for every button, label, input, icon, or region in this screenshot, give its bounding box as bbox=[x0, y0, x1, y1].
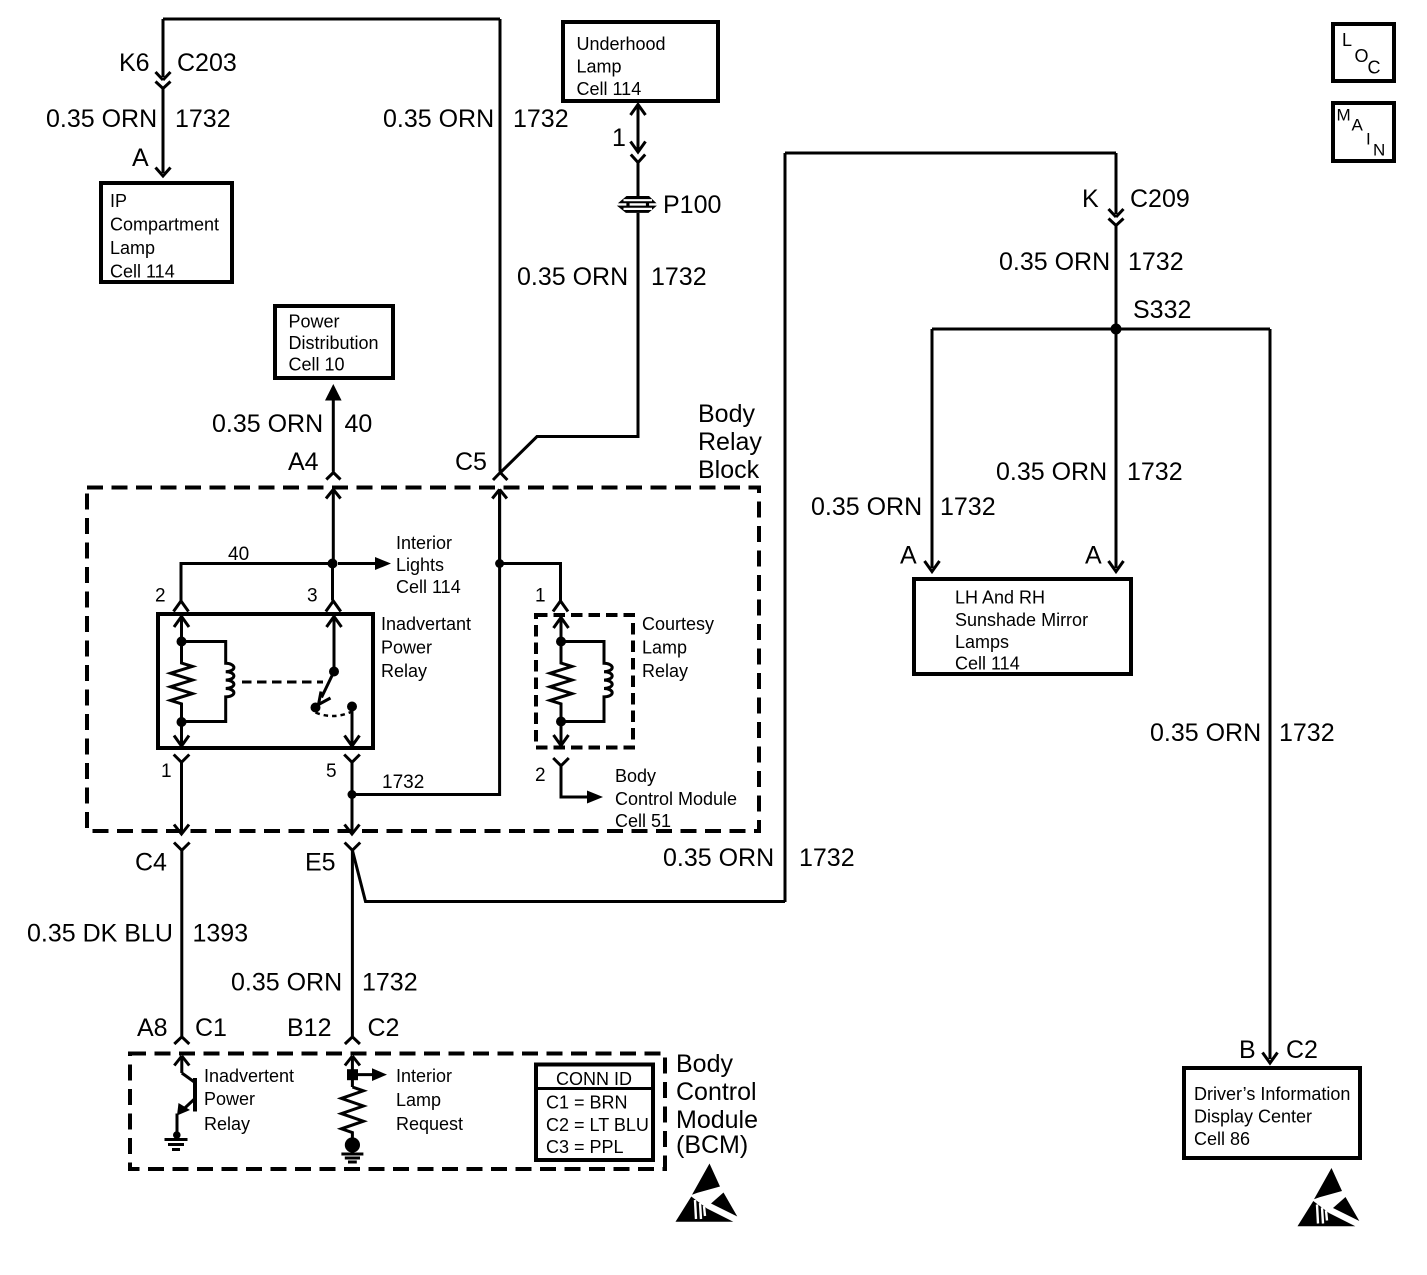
courtesy pin 1 chevron bbox=[553, 601, 568, 612]
relay pin 1 internal lead with arrow bbox=[174, 722, 189, 746]
svg-text:C1: C1 bbox=[195, 1014, 227, 1042]
svg-text:CONN ID: CONN ID bbox=[556, 1069, 632, 1089]
box: Inadvertant Power Relay bbox=[158, 614, 373, 748]
svg-text:C3 = PPL: C3 = PPL bbox=[546, 1137, 624, 1157]
label Interior Lamp Request bbox=[396, 1066, 463, 1134]
ESD sensitivity symbol (DIDC) bbox=[1298, 1168, 1360, 1226]
pin 1 chevron below relay bbox=[174, 755, 190, 763]
svg-text:IP: IP bbox=[110, 191, 127, 211]
svg-text:A: A bbox=[132, 144, 149, 172]
svg-text:Relay: Relay bbox=[204, 1114, 250, 1134]
svg-text:Lamp: Lamp bbox=[110, 238, 155, 258]
svg-text:Inadvertent: Inadvertent bbox=[204, 1066, 294, 1086]
box: Underhood Lamp Cell 114 bbox=[563, 22, 718, 101]
terminal C4 exit arrow at block edge bbox=[174, 825, 189, 835]
connector chevron at underhood lamp lead bbox=[631, 155, 645, 163]
svg-text:0.35 DK BLU: 0.35 DK BLU bbox=[27, 920, 173, 948]
svg-text:Compartment: Compartment bbox=[110, 215, 219, 235]
label Inadvertant Power Relay bbox=[381, 614, 471, 681]
arrowhead into sunshade box (left) bbox=[925, 561, 940, 572]
wire: middle branch down from S332 to terminal A bbox=[1115, 329, 1118, 568]
svg-text:Body: Body bbox=[698, 400, 755, 428]
wire: E5 down to BCM connector B12/C2 bbox=[351, 850, 354, 1036]
wire: courtesy pin 2 to BCM arrow bbox=[561, 766, 587, 797]
label Body Control Module (BCM) bbox=[676, 1050, 758, 1159]
arrow to Interior Lamp Request bbox=[352, 1068, 387, 1081]
ground symbol (interior lamp request) bbox=[341, 1154, 363, 1162]
node: ground tie dot bbox=[173, 1131, 181, 1139]
svg-text:A4: A4 bbox=[288, 448, 319, 476]
connector chevron at A8/C1 bbox=[174, 1037, 189, 1044]
svg-text:Cell 114: Cell 114 bbox=[577, 79, 642, 99]
label Inadvertent Power Relay (BCM) bbox=[204, 1066, 294, 1134]
svg-text:0.35 ORN: 0.35 ORN bbox=[517, 263, 628, 291]
label Courtesy Lamp Relay bbox=[642, 614, 714, 681]
courtesy coil resistance (zigzag) bbox=[550, 642, 572, 722]
svg-text:Display Center: Display Center bbox=[1194, 1107, 1312, 1127]
node: junction on pin 5 wire for 1732 feed bbox=[348, 790, 357, 799]
svg-text:Body: Body bbox=[676, 1050, 733, 1078]
svg-text:Interior: Interior bbox=[396, 533, 452, 553]
svg-text:Lamp: Lamp bbox=[396, 1090, 441, 1110]
switch blade with arrowhead bbox=[319, 672, 335, 705]
node: relay coil top bbox=[177, 637, 187, 647]
terminal E5 chevron (harness side) bbox=[345, 843, 361, 851]
svg-text:Distribution: Distribution bbox=[289, 333, 379, 353]
svg-text:0.35 ORN: 0.35 ORN bbox=[999, 248, 1110, 276]
pin 5 chevron below relay bbox=[344, 755, 360, 763]
wire: from C209 down to splice S332 bbox=[1115, 226, 1118, 330]
svg-text:Interior: Interior bbox=[396, 1066, 452, 1086]
svg-text:1: 1 bbox=[161, 761, 172, 782]
node: interior lamp request tap bbox=[347, 1069, 358, 1080]
svg-text:1732: 1732 bbox=[1279, 719, 1335, 747]
svg-text:Lamp: Lamp bbox=[577, 57, 622, 77]
node: courtesy coil top bbox=[556, 637, 566, 647]
svg-text:A: A bbox=[1352, 116, 1364, 135]
svg-text:P100: P100 bbox=[663, 191, 721, 219]
wire: pin 3 riser down to relay bbox=[331, 564, 334, 601]
label Body Relay Block bbox=[698, 400, 762, 484]
terminal C5 entry arrow inside block bbox=[492, 490, 507, 564]
courtesy coil (inductor) bbox=[561, 642, 612, 722]
svg-text:0.35 ORN: 0.35 ORN bbox=[1150, 719, 1261, 747]
terminal C4 chevron (harness side) bbox=[174, 843, 190, 851]
node: junction of pin 3 riser with 40 branch bbox=[328, 559, 338, 569]
wire: right branch from S332 down to Driver's Information Display Center bbox=[1269, 329, 1272, 1059]
relay pin 3 internal lead (switch common) bbox=[333, 614, 336, 672]
svg-text:2: 2 bbox=[535, 765, 546, 786]
svg-text:1: 1 bbox=[612, 124, 626, 152]
arrowhead into Driver's Information Display Center bbox=[1263, 1053, 1278, 1064]
node: junction on C5 riser bbox=[495, 559, 504, 568]
svg-text:Courtesy: Courtesy bbox=[642, 614, 714, 634]
wire: pin 1 down to block edge C4 bbox=[180, 762, 183, 831]
svg-text:Module: Module bbox=[676, 1106, 758, 1134]
relay coil resistance (zigzag) bbox=[171, 642, 193, 723]
node: relay coil bottom bbox=[177, 717, 187, 727]
svg-text:0.35 ORN: 0.35 ORN bbox=[46, 105, 157, 133]
LOC reference box bbox=[1333, 24, 1394, 81]
svg-text:Sunshade Mirror: Sunshade Mirror bbox=[955, 610, 1088, 630]
wire: S332 horizontal distribution bbox=[932, 328, 1270, 331]
wire: left branch down to LH sunshade lamp terminal A bbox=[931, 329, 934, 568]
svg-text:Power: Power bbox=[381, 638, 432, 658]
relay control dashed link bbox=[242, 681, 323, 684]
svg-text:40: 40 bbox=[345, 410, 373, 438]
svg-text:Control Module: Control Module bbox=[615, 789, 737, 809]
wire: C5 branch over to courtesy relay pin 1 bbox=[500, 564, 561, 601]
courtesy pin 2 chevron bbox=[553, 758, 569, 766]
svg-text:0.35 ORN: 0.35 ORN bbox=[383, 105, 494, 133]
svg-text:Request: Request bbox=[396, 1114, 463, 1134]
wire: circuit 40 horizontal to relay pin 2 bbox=[181, 564, 333, 601]
svg-text:3: 3 bbox=[307, 586, 318, 607]
box: IP Compartment Lamp Cell 114 bbox=[101, 183, 232, 282]
Body Control Module dashed outline bbox=[130, 1054, 665, 1170]
svg-text:Cell 114: Cell 114 bbox=[955, 654, 1020, 674]
svg-text:(BCM): (BCM) bbox=[676, 1131, 748, 1159]
relay pin 5 internal lead with arrow bbox=[345, 707, 360, 747]
svg-text:B12: B12 bbox=[287, 1014, 331, 1042]
ESD sensitivity symbol (BCM) bbox=[676, 1164, 738, 1222]
wire: vertical from top bus down to terminal C5 bbox=[499, 19, 502, 472]
svg-text:1732: 1732 bbox=[799, 844, 855, 872]
relay coil (inductor) bbox=[182, 642, 234, 722]
pin 2 chevron bbox=[174, 601, 189, 612]
B12 entry arrow inside BCM bbox=[345, 1056, 360, 1087]
arrowhead into IP Compartment Lamp box bbox=[156, 168, 171, 177]
svg-text:Lamp: Lamp bbox=[642, 638, 687, 658]
Body Relay Block dashed outline bbox=[87, 488, 759, 832]
wire: vertical drop to connector C203 bbox=[162, 19, 165, 77]
arrowhead (filled) into Power Distribution box bbox=[325, 384, 342, 401]
courtesy pin 2 internal lead with arrow bbox=[554, 722, 569, 746]
wire: emitter to ground bbox=[176, 1114, 179, 1136]
wire: horizontal run from E5 riser to C209 drop bbox=[785, 152, 1116, 155]
node: switch contact (normally open, left) bbox=[311, 703, 321, 713]
svg-text:5: 5 bbox=[326, 761, 337, 782]
svg-text:1732: 1732 bbox=[940, 493, 996, 521]
svg-text:C: C bbox=[1368, 58, 1381, 78]
node: switch pivot bbox=[329, 667, 339, 677]
MAIN reference box bbox=[1333, 103, 1394, 161]
arrow on pin 3 lead bbox=[327, 617, 342, 628]
svg-text:I: I bbox=[1366, 130, 1371, 149]
relay pin 2 internal lead with arrow bbox=[174, 616, 189, 641]
svg-text:Cell 114: Cell 114 bbox=[110, 262, 175, 282]
svg-text:0.35 ORN: 0.35 ORN bbox=[996, 458, 1107, 486]
svg-text:Cell 86: Cell 86 bbox=[1194, 1129, 1250, 1149]
terminal C5 chevron (block side) bbox=[493, 473, 507, 481]
svg-text:Block: Block bbox=[698, 456, 760, 484]
svg-text:0.35 ORN: 0.35 ORN bbox=[663, 844, 774, 872]
box: Driver's Information Display Center Cell 86 bbox=[1184, 1068, 1360, 1158]
interior lamp request pull-up resistor bbox=[341, 1087, 363, 1139]
CONN ID table box bbox=[536, 1065, 653, 1161]
box: LH And RH Sunshade Mirror Lamps Cell 114 bbox=[914, 579, 1131, 674]
terminal A4 entry arrow inside block bbox=[326, 490, 341, 564]
ground symbol (BCM relay driver) bbox=[165, 1140, 188, 1150]
svg-text:C209: C209 bbox=[1130, 185, 1190, 213]
label Body Control Module Cell 51 bbox=[615, 766, 737, 831]
svg-text:C203: C203 bbox=[177, 49, 237, 77]
svg-text:C4: C4 bbox=[135, 849, 167, 877]
svg-text:N: N bbox=[1373, 141, 1385, 160]
node: courtesy coil bottom bbox=[556, 717, 566, 727]
wire: from C203 down to IP Compartment Lamp bbox=[162, 89, 165, 174]
svg-text:B: B bbox=[1239, 1036, 1256, 1064]
svg-text:Body: Body bbox=[615, 766, 656, 786]
node: switch contact (pin 5) bbox=[347, 702, 357, 712]
terminal 1 double-headed arrow below Underhood Lamp bbox=[631, 105, 646, 153]
svg-text:1732: 1732 bbox=[175, 105, 231, 133]
svg-text:0.35 ORN: 0.35 ORN bbox=[212, 410, 323, 438]
box: Power Distribution Cell 10 bbox=[275, 306, 393, 378]
connector C209 (in-line connector symbol) bbox=[1109, 209, 1124, 226]
svg-text:A: A bbox=[1085, 542, 1102, 570]
svg-text:Relay: Relay bbox=[381, 661, 427, 681]
terminal A4 chevron (block side) bbox=[326, 473, 340, 480]
svg-text:C2 = LT BLU: C2 = LT BLU bbox=[546, 1115, 649, 1135]
svg-text:Cell 10: Cell 10 bbox=[289, 355, 345, 375]
svg-text:O: O bbox=[1355, 46, 1369, 66]
connector C203 (in-line connector symbol) bbox=[156, 72, 171, 89]
svg-text:1732: 1732 bbox=[513, 105, 569, 133]
wire: from P100 down, over and diagonally into terminal C5 bbox=[501, 213, 638, 472]
svg-text:K6: K6 bbox=[119, 49, 150, 77]
arrow to Interior Lights Cell 114 bbox=[338, 557, 391, 570]
svg-text:Lamps: Lamps bbox=[955, 632, 1009, 652]
svg-text:1393: 1393 bbox=[193, 920, 249, 948]
node: resistor to ground dot bbox=[345, 1137, 360, 1152]
svg-text:K: K bbox=[1082, 185, 1099, 213]
svg-text:LH And RH: LH And RH bbox=[955, 588, 1045, 608]
svg-text:Control: Control bbox=[676, 1078, 757, 1106]
wire: from relay block terminal A4 up to Power Distribution bbox=[332, 398, 335, 472]
arrowhead into sunshade box (right) bbox=[1109, 561, 1124, 572]
svg-text:1: 1 bbox=[535, 586, 546, 607]
inadvertent power relay driver (transistor symbol) bbox=[181, 1073, 196, 1112]
svg-text:Cell 114: Cell 114 bbox=[396, 577, 461, 597]
svg-text:2: 2 bbox=[155, 586, 166, 607]
svg-text:0.35 ORN: 0.35 ORN bbox=[231, 969, 342, 997]
pin 3 chevron bbox=[326, 601, 341, 612]
svg-text:C5: C5 bbox=[455, 448, 487, 476]
svg-text:A: A bbox=[900, 542, 917, 570]
courtesy pin 1 internal lead with arrow bbox=[554, 617, 569, 641]
svg-text:Lights: Lights bbox=[396, 555, 444, 575]
svg-text:1732: 1732 bbox=[651, 263, 707, 291]
svg-text:1732: 1732 bbox=[362, 969, 418, 997]
grommet P100 bbox=[617, 196, 657, 213]
svg-text:C1 = BRN: C1 = BRN bbox=[546, 1093, 628, 1113]
svg-text:Underhood: Underhood bbox=[577, 34, 666, 54]
svg-text:Power: Power bbox=[289, 312, 340, 332]
wire: right riser from BCM horizontal up to top run bbox=[784, 153, 787, 902]
svg-text:C2: C2 bbox=[1286, 1036, 1318, 1064]
svg-text:1732: 1732 bbox=[382, 772, 424, 793]
svg-text:L: L bbox=[1342, 30, 1352, 50]
arrow to Body Control Module Cell 51 bbox=[587, 791, 603, 804]
svg-text:Relay: Relay bbox=[642, 661, 688, 681]
svg-text:40: 40 bbox=[228, 544, 249, 565]
A8 entry arrow inside BCM bbox=[174, 1056, 189, 1073]
svg-text:Cell 51: Cell 51 bbox=[615, 811, 671, 831]
svg-text:S332: S332 bbox=[1133, 296, 1191, 324]
node S332 junction dot bbox=[1111, 324, 1122, 335]
svg-text:Driver’s Information: Driver’s Information bbox=[1194, 1084, 1350, 1104]
wire: E5 diagonal feed to right riser bbox=[352, 850, 785, 901]
svg-text:Power: Power bbox=[204, 1089, 255, 1109]
svg-text:M: M bbox=[1337, 106, 1351, 125]
svg-text:C2: C2 bbox=[368, 1014, 400, 1042]
svg-text:E5: E5 bbox=[305, 849, 336, 877]
terminal E5 exit arrow at block edge bbox=[345, 825, 360, 835]
svg-text:1732: 1732 bbox=[1127, 458, 1183, 486]
label Interior Lights Cell 114 bbox=[396, 533, 461, 597]
svg-text:A8: A8 bbox=[137, 1014, 168, 1042]
wire: 1732 horizontal from pin 5 junction to C5 riser bbox=[352, 489, 500, 795]
wire: drop to connector C209 bbox=[1115, 153, 1118, 214]
svg-text:1732: 1732 bbox=[1128, 248, 1184, 276]
arrowhead on driver emitter bbox=[177, 1103, 190, 1116]
wire: pin 5 down to block edge E5 bbox=[351, 762, 354, 831]
wire: underhood lamp lead down to grommet P100 bbox=[637, 163, 640, 197]
wire: top horizontal bus from K6 branch to C5 branch bbox=[163, 18, 500, 21]
connector chevron at B12/C2 bbox=[345, 1037, 360, 1044]
CONN ID header separator bbox=[536, 1087, 653, 1090]
svg-text:Inadvertant: Inadvertant bbox=[381, 614, 471, 634]
svg-text:Relay: Relay bbox=[698, 428, 762, 456]
wire: C4 down to BCM connector A8/C1 bbox=[180, 850, 183, 1036]
Courtesy Lamp Relay dashed outline bbox=[536, 615, 633, 748]
svg-text:0.35 ORN: 0.35 ORN bbox=[811, 493, 922, 521]
dashed travel arc between contacts bbox=[316, 712, 353, 717]
